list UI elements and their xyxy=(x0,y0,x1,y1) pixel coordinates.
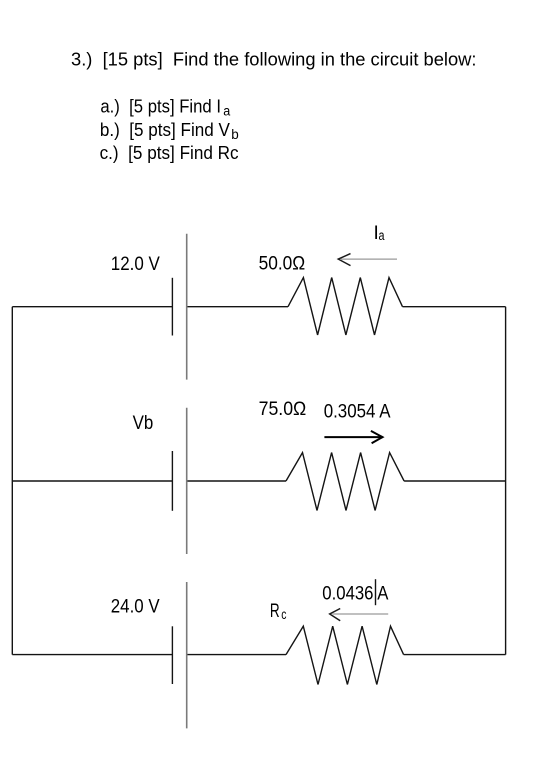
svg-text:a.) [5 pts] Find I: a.) [5 pts] Find I xyxy=(100,97,221,117)
svg-text:c: c xyxy=(281,607,286,622)
svg-text:a: a xyxy=(223,104,230,119)
svg-text:R: R xyxy=(270,601,280,622)
svg-text:12.0 V: 12.0 V xyxy=(111,254,160,275)
svg-text:50.0Ω: 50.0Ω xyxy=(259,254,306,275)
svg-text:c.) [5 pts] Find Rc: c.) [5 pts] Find Rc xyxy=(100,143,239,163)
svg-text:75.0Ω: 75.0Ω xyxy=(259,399,307,420)
svg-text:b: b xyxy=(231,127,239,142)
svg-text:Vb: Vb xyxy=(133,413,154,434)
svg-text:a: a xyxy=(379,228,385,243)
svg-text:3.) [15 pts] Find the follow: 3.) [15 pts] Find the following in the c… xyxy=(71,49,477,70)
svg-text:24.0 V: 24.0 V xyxy=(111,597,160,618)
svg-text:b.) [5 pts] Find V: b.) [5 pts] Find V xyxy=(100,120,230,140)
svg-text:0.0436 A: 0.0436 A xyxy=(322,584,388,605)
svg-text:0.3054 A: 0.3054 A xyxy=(324,402,391,423)
